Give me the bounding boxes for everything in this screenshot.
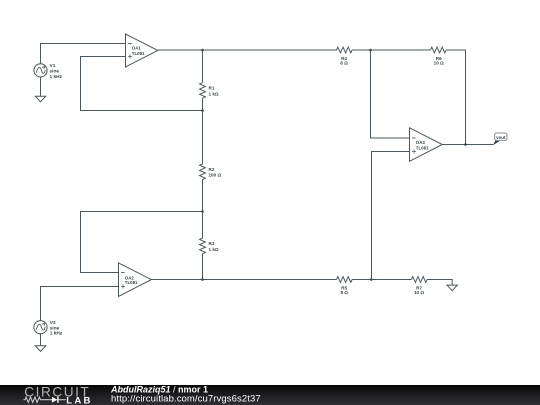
resistor R1 [200, 50, 206, 111]
wire node to OA3 noninverting input [372, 152, 410, 280]
CircuitLab logo doodle diode [52, 397, 66, 403]
resistor R6 [431, 47, 447, 53]
voltage source V3 [34, 321, 47, 334]
resistor R7 [412, 277, 428, 283]
ground G1 [35, 96, 45, 102]
node junction OA3 noninverting tap [370, 278, 373, 281]
label OA3 TL081 [416, 140, 429, 151]
wire R5 to R7 [352, 279, 411, 281]
node junction R4/R6 OA3 inverting [369, 49, 372, 52]
op-amp OA2 [119, 263, 152, 297]
node flag vout [493, 133, 507, 145]
wire OA1 output to R4 [158, 49, 337, 51]
wire V3 top to OA2 noninverting input [41, 287, 119, 321]
wire R6 to output node [446, 50, 465, 145]
svg-text:http://circuitlab.com/cu7rvgs6: http://circuitlab.com/cu7rvgs6s2t37 [111, 393, 261, 404]
wire OA3 output to vout [442, 144, 493, 146]
label R7 10 Ohm [414, 286, 424, 295]
ground G2 [35, 346, 45, 352]
voltage source V1 [34, 64, 47, 77]
label OA1 TL081 [132, 45, 145, 56]
resistor R5 [337, 277, 353, 283]
footer bar [0, 385, 540, 405]
wire V1 top to OA1 inverting input [41, 44, 126, 64]
wire R2/R3 node to OA2 inverting input [81, 212, 203, 273]
label R1 1 kOhm [209, 86, 219, 97]
node junction R1 bottom / feedback [201, 109, 204, 112]
op-amp OA1 [126, 34, 158, 67]
label R2 100 Ohm [209, 167, 222, 178]
wire V1 bottom to ground [40, 77, 42, 96]
node junction R3 bottom on output wire [201, 278, 204, 281]
wire OA1 noninverting feedback loop [81, 57, 203, 111]
ground G3 [447, 285, 457, 291]
label OA2 TL081 [125, 275, 138, 285]
resistor R2 [200, 111, 206, 212]
label V3 sine 1 kHz [50, 320, 63, 337]
label R6 10 Ohm [434, 56, 444, 65]
wire V3 bottom to ground [40, 334, 42, 346]
label R5 8 Ohm [340, 286, 348, 295]
svg-text:LAB: LAB [66, 395, 92, 405]
op-amp OA3 [410, 128, 443, 162]
label R4 8 Ohm [340, 56, 348, 65]
label R3 1 kOhm [209, 241, 219, 252]
node junction at OA1 output / R1 top [201, 49, 204, 52]
wire R4 to R6 [352, 49, 430, 51]
node junction R2/R3 [201, 210, 204, 213]
label V1 sine 1 kHz [50, 63, 63, 80]
resistor R3 [200, 212, 206, 280]
node junction OA3 output / R6 [464, 143, 467, 146]
wire node down to OA3 inverting input [371, 50, 410, 138]
wire R7 to ground [427, 280, 452, 286]
CircuitLab logo doodle resistor wire [24, 397, 52, 402]
wire OA2 output to R5 [151, 279, 336, 281]
resistor R4 [337, 47, 353, 53]
